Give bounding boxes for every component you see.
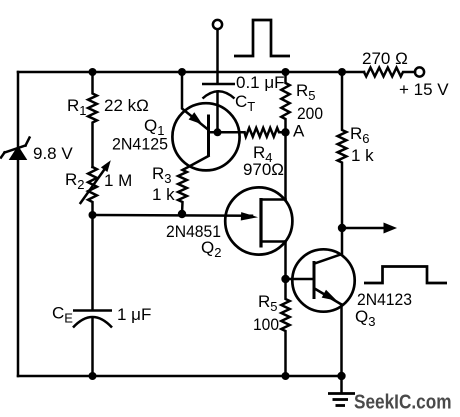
svg-text:0.1 μF: 0.1 μF xyxy=(236,73,285,92)
svg-text:1 M: 1 M xyxy=(104,171,132,190)
node: R6/top rail junction xyxy=(338,68,346,76)
node: Q3 base junction xyxy=(281,275,289,283)
resistor R5 200 xyxy=(281,72,289,132)
wire R2 to CE xyxy=(91,215,94,310)
output pulse waveform xyxy=(364,267,447,284)
output arrow xyxy=(342,223,397,234)
node: Q1 emitter/top rail junction xyxy=(178,68,186,76)
node: Q3 collector / output junction xyxy=(338,224,346,232)
svg-text:+ 15 V: + 15 V xyxy=(399,80,449,99)
transistor Q2 2N4851 xyxy=(225,187,292,254)
+15V terminal xyxy=(415,67,424,76)
wire trigger to CT xyxy=(216,29,219,83)
wire Q2 base-1 down xyxy=(284,242,287,280)
resistor R4 970 ohm xyxy=(245,128,286,137)
node: R5 bottom rail junction xyxy=(282,372,290,380)
trigger input terminal xyxy=(213,20,222,29)
svg-text:A: A xyxy=(293,122,305,141)
wire left rail xyxy=(17,72,20,376)
wire top rail xyxy=(18,71,364,74)
svg-text:1 k: 1 k xyxy=(351,146,374,165)
node A xyxy=(281,128,289,136)
node: R1/top rail junction xyxy=(89,68,97,76)
node: R3 bottom junction xyxy=(178,210,186,218)
node: CE bottom rail junction xyxy=(89,372,97,380)
svg-text:970Ω: 970Ω xyxy=(243,160,284,179)
node: CT/base junction xyxy=(214,128,222,136)
wire node A to Q2 base-2 xyxy=(284,132,287,199)
svg-text:2N4125: 2N4125 xyxy=(112,135,168,154)
wire Q1 base to R4 xyxy=(209,131,245,134)
ground xyxy=(328,376,355,406)
resistor 270 Ohm xyxy=(364,68,415,77)
svg-text:1 μF: 1 μF xyxy=(117,305,151,324)
node: ground junction xyxy=(337,372,345,380)
node: R2/CE junction xyxy=(89,211,97,219)
svg-text:22 kΩ: 22 kΩ xyxy=(104,96,149,115)
capacitor CT 0.1uF xyxy=(202,84,235,99)
svg-text:100: 100 xyxy=(253,315,279,334)
node: R5/top rail junction xyxy=(282,68,290,76)
R2 wiper arrow xyxy=(81,160,111,203)
resistor R5 100 xyxy=(281,279,289,376)
svg-text:270 Ω: 270 Ω xyxy=(362,49,408,68)
wire CT to Q1 base xyxy=(216,92,219,133)
resistor R6 1k xyxy=(338,72,347,228)
capacitor CE 1uF xyxy=(73,311,112,328)
resistor R1 xyxy=(88,72,97,167)
transistor Q1 2N4125 xyxy=(172,72,239,170)
wire bottom rail xyxy=(18,375,342,378)
trigger pulse waveform xyxy=(234,20,290,56)
svg-text:SeekIC.com: SeekIC.com xyxy=(354,392,452,414)
svg-text:200: 200 xyxy=(297,104,323,123)
resistor R2 (variable) xyxy=(88,167,97,215)
resistor R3 1k xyxy=(178,170,187,215)
transistor Q3 2N4123 xyxy=(286,228,355,376)
svg-text:1 k: 1 k xyxy=(152,185,175,204)
wire CE to bottom rail xyxy=(91,318,94,377)
svg-text:9.8 V: 9.8 V xyxy=(33,144,73,163)
zener diode 9.8V xyxy=(1,138,30,161)
wire R2/R3 to Q2 emitter xyxy=(93,214,253,217)
